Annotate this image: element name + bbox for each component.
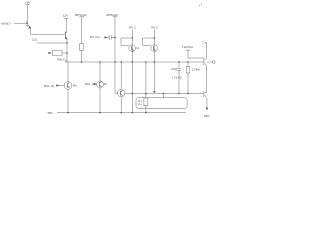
svg-text:98Hz/μF: 98Hz/μF bbox=[106, 13, 118, 17]
svg-text:Rb: Rb bbox=[73, 83, 77, 87]
svg-text:C7Bu: C7Bu bbox=[192, 67, 200, 71]
svg-text:R4LC: R4LC bbox=[57, 57, 66, 61]
svg-text:98Hz/μF: 98Hz/μF bbox=[75, 13, 87, 17]
svg-text:RVL (2): RVL (2) bbox=[85, 82, 96, 86]
svg-text:TRL: TRL bbox=[47, 111, 53, 115]
svg-text:C7o: C7o bbox=[202, 40, 207, 44]
svg-text:+(IN)O–: +(IN)O– bbox=[1, 21, 12, 25]
svg-text:PE1: PE1 bbox=[204, 114, 210, 118]
svg-text:RV 1: RV 1 bbox=[129, 26, 136, 30]
svg-text:RV 2: RV 2 bbox=[151, 26, 158, 30]
svg-text:12V: 12V bbox=[63, 13, 69, 17]
svg-text:+9V: +9V bbox=[25, 0, 32, 4]
svg-text:G+: G+ bbox=[138, 102, 142, 106]
svg-text:C5A: C5A bbox=[171, 67, 178, 71]
svg-text:RV (2)–: RV (2)– bbox=[90, 35, 101, 39]
svg-text:RVL (2): RVL (2) bbox=[44, 84, 55, 88]
svg-text:bL: bL bbox=[104, 82, 108, 86]
svg-text:+73.5V: +73.5V bbox=[172, 76, 183, 80]
svg-text:T1A/Out: T1A/Out bbox=[182, 45, 194, 49]
svg-text:C2L: C2L bbox=[32, 38, 38, 42]
